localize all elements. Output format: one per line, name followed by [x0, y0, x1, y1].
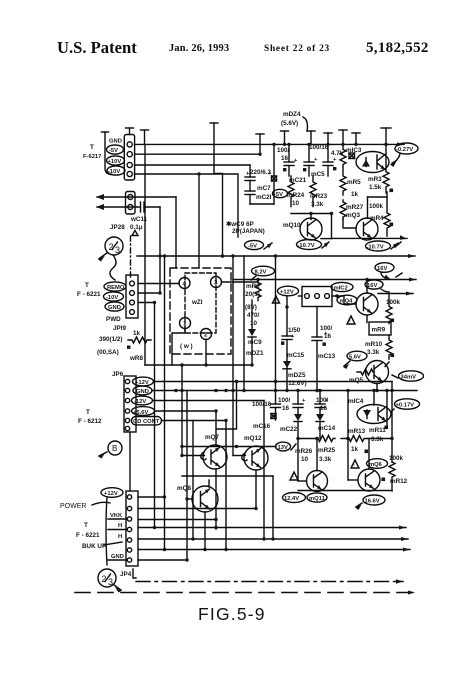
- svg-text:mQ12: mQ12: [244, 435, 262, 442]
- svg-text:10: 10: [292, 200, 300, 207]
- warning triangle mQ4: [347, 316, 355, 324]
- T-stub x311: [310, 131, 312, 144]
- HEADER: [57, 38, 429, 57]
- svg-text:5,182,552: 5,182,552: [366, 40, 429, 56]
- svg-text:-0.27V: -0.27V: [396, 147, 413, 153]
- svg-text:3.3k: 3.3k: [367, 349, 380, 356]
- oval +0.17V: [395, 399, 420, 409]
- vertical bus x187: [186, 391, 188, 561]
- svg-text:1: 1: [183, 321, 187, 328]
- leader lines power labels: [108, 518, 127, 520]
- labels 100/16 row: [252, 397, 364, 433]
- wire mIC4 feed: [373, 391, 375, 406]
- capacitor wC11: [137, 206, 141, 208]
- svg-text:GND: GND: [109, 139, 122, 145]
- svg-text:3: 3: [214, 280, 218, 287]
- svg-text:PWD: PWD: [106, 316, 121, 323]
- op-amp mIC4: [357, 405, 391, 424]
- wire emitter bus y490: [298, 490, 392, 492]
- svg-text:mR13: mR13: [348, 428, 366, 435]
- chain line bottom: [136, 581, 403, 583]
- svg-text:+: +: [302, 398, 306, 404]
- svg-text:H: H: [118, 523, 122, 529]
- svg-text:mC16: mC16: [253, 423, 271, 430]
- svg-text:-5V: -5V: [274, 192, 283, 198]
- svg-text:16V: 16V: [367, 283, 377, 289]
- wire pin1 down: [172, 329, 185, 366]
- pin 3: [211, 277, 222, 288]
- connector POWER labels: [60, 491, 124, 560]
- svg-text:+: +: [333, 157, 337, 163]
- svg-text:mR12: mR12: [390, 478, 408, 485]
- svg-text:T: T: [85, 282, 89, 289]
- svg-text:mR11: mR11: [369, 427, 386, 434]
- svg-text:mQ3: mQ3: [346, 212, 360, 219]
- wire pin2 down: [205, 340, 207, 366]
- svg-text:T: T: [90, 144, 94, 151]
- wire bus y293: [299, 295, 303, 297]
- svg-text:T: T: [86, 409, 90, 416]
- resistor mR11 3.3k: [369, 427, 386, 443]
- oval -10.7V left: [297, 240, 322, 250]
- svg-text:mR5: mR5: [347, 179, 361, 186]
- vertical mR13 column: [347, 391, 349, 481]
- wire H1: [138, 519, 216, 521]
- svg-text:B: B: [112, 444, 117, 453]
- svg-text:wZI: wZI: [191, 299, 203, 306]
- T-stub x260: [259, 134, 261, 154]
- T-stub x386: [385, 128, 387, 144]
- oval +12V power: [101, 488, 123, 498]
- connector JP6 ovals: [133, 377, 154, 386]
- diode mC14col: [316, 414, 324, 421]
- wire +12V pin feed: [138, 496, 165, 498]
- svg-text:10: 10: [301, 456, 309, 463]
- svg-text:100k: 100k: [386, 299, 401, 306]
- transistor mQ12: [244, 435, 262, 442]
- svg-text:(00,SA): (00,SA): [97, 349, 119, 356]
- node square A: [390, 189, 394, 193]
- svg-text:VKK: VKK: [110, 513, 123, 519]
- svg-text:mC15: mC15: [287, 352, 305, 359]
- vertical x199 to module: [198, 174, 200, 268]
- svg-text:2: 2: [102, 574, 107, 584]
- wire arrow JP2 pin1: [97, 196, 176, 198]
- bottom junction dots: [153, 254, 266, 551]
- svg-text:100/16: 100/16: [252, 401, 272, 408]
- node B: [108, 441, 122, 455]
- T-stub x328: [327, 133, 329, 144]
- svg-text:mIC4: mIC4: [348, 398, 364, 405]
- T-stub x144: [144, 130, 146, 144]
- outer dashed box w: [170, 268, 231, 354]
- svg-text:10: 10: [250, 320, 258, 327]
- svg-text:1k: 1k: [351, 191, 359, 198]
- svg-text:2P(JAPAN): 2P(JAPAN): [232, 228, 265, 235]
- connector JP28 body: [126, 192, 136, 215]
- pin 4: [179, 278, 190, 289]
- transistor mQ4: [356, 293, 378, 315]
- junction dots JP6: [174, 389, 177, 392]
- wire pin4 to connector: [138, 283, 179, 285]
- resistor 100k lower: [389, 455, 404, 462]
- T-stub x214 with step: [214, 123, 223, 257]
- wire bus y238: [332, 237, 408, 239]
- svg-text:BUK UP: BUK UP: [82, 543, 106, 550]
- connector POWER body: [106, 497, 107, 565]
- resistor mR5 1k: [340, 167, 346, 195]
- svg-text:mC22: mC22: [280, 426, 298, 433]
- svg-text:mC2I: mC2I: [256, 194, 272, 201]
- svg-text:mR23: mR23: [310, 193, 328, 200]
- svg-text:mQ4: mQ4: [340, 299, 354, 305]
- crossed square near mIC3: [349, 153, 355, 159]
- wire pin3 right: [222, 281, 259, 283]
- svg-text:3.3k: 3.3k: [311, 201, 324, 208]
- wire VKK: [138, 508, 256, 510]
- transistor mQ11: [307, 471, 328, 492]
- wire y476: [182, 475, 273, 477]
- wire top bus 3: [135, 164, 250, 166]
- T-stub x356: [355, 133, 357, 144]
- svg-text:mDZ4: mDZ4: [283, 111, 301, 118]
- svg-text:JP6: JP6: [112, 371, 124, 378]
- wire mQ7 emitter down: [215, 469, 217, 529]
- oval label mQ4: [337, 295, 357, 305]
- capacitor mC7 / mC2I stack: [249, 165, 251, 177]
- oval +12V mid: [278, 286, 299, 296]
- transistor mQ10: [283, 222, 301, 229]
- resistor box mR9: [369, 322, 391, 335]
- connector F-6221 body: [126, 275, 138, 318]
- svg-text:(5.6V): (5.6V): [281, 120, 298, 127]
- oval mQ6: [367, 459, 388, 469]
- vertical bus x264: [263, 401, 265, 540]
- svg-text:JP4: JP4: [120, 571, 132, 578]
- vertical bus x233 lower: [232, 391, 234, 456]
- svg-text:mQ10: mQ10: [283, 222, 301, 229]
- diode mDZ1 symbol: [251, 300, 253, 330]
- svg-text:mR3: mR3: [368, 176, 382, 183]
- svg-text:mDZ5: mDZ5: [288, 372, 306, 379]
- svg-text:100/: 100/: [277, 147, 290, 154]
- resistor mR6: [255, 280, 261, 301]
- transistor mQ6: [358, 469, 380, 491]
- vertical bus x226: [225, 421, 227, 550]
- label mDZ4: [281, 111, 301, 127]
- svg-text:8.2V: 8.2V: [255, 270, 267, 276]
- labels mC9 mDZ1 470/10: [245, 304, 264, 357]
- svg-text:mR26: mR26: [295, 448, 313, 455]
- svg-text:POWER: POWER: [60, 503, 86, 510]
- connector JP6 body: [124, 376, 136, 432]
- svg-text:mR10: mR10: [365, 341, 383, 348]
- svg-text:12.4V: 12.4V: [284, 496, 299, 502]
- capacitor mC22: [297, 391, 299, 404]
- vertical bus x176: [175, 197, 177, 268]
- svg-text:mC7: mC7: [257, 185, 271, 192]
- svg-text:0.1μ: 0.1μ: [130, 224, 143, 231]
- svg-text:13V: 13V: [278, 445, 288, 451]
- svg-text:✱wC9 6P: ✱wC9 6P: [226, 221, 254, 228]
- capacitor mC21: [288, 144, 290, 162]
- wire collector feed x236: [216, 382, 237, 430]
- oval mQ11: [307, 493, 327, 502]
- wire -12V right: [153, 400, 265, 402]
- resistor 1k lower: [351, 446, 359, 453]
- oval -5V: [245, 240, 264, 249]
- wire mQ12 emitter down: [255, 470, 257, 509]
- svg-text:2: 2: [109, 242, 114, 252]
- svg-text:GND: GND: [111, 554, 124, 560]
- transistor mQ3: [356, 218, 378, 240]
- wire arrow JP2 pin2: [97, 206, 137, 208]
- connector F-6217 body JP: [124, 135, 134, 181]
- vertical bus x275: [275, 256, 277, 391]
- oval label mIC2: [331, 282, 353, 291]
- svg-text:100k: 100k: [369, 203, 384, 210]
- figure caption FIG.5-9: [198, 604, 266, 624]
- vertical bus x196: [192, 421, 194, 540]
- arrow from -0.27V to mIC3: [392, 154, 400, 163]
- svg-text:5.6V: 5.6V: [349, 355, 361, 361]
- svg-text:+0.17V: +0.17V: [396, 403, 415, 409]
- IC mIC2 box: [302, 287, 332, 307]
- capacitor mC14: [319, 391, 321, 404]
- svg-text:1k: 1k: [351, 446, 359, 453]
- wire GND right: [152, 390, 417, 392]
- warning triangle mQ6: [351, 460, 359, 468]
- svg-text:FIG.5-9: FIG.5-9: [198, 604, 266, 624]
- svg-text:470/: 470/: [247, 312, 260, 319]
- oval 16.6V: [363, 495, 385, 505]
- pin 2: [201, 329, 212, 340]
- svg-text:3: 3: [115, 245, 120, 255]
- svg-text:JP28: JP28: [110, 224, 125, 231]
- svg-text:16V: 16V: [377, 266, 387, 272]
- label wC9: [226, 221, 265, 235]
- svg-text:H: H: [118, 534, 122, 540]
- wire bus y365: [145, 364, 252, 366]
- svg-text:16.6V: 16.6V: [365, 499, 380, 505]
- wire top bus 4: [135, 174, 238, 237]
- oval 16V upper: [375, 263, 394, 273]
- svg-text:34mV: 34mV: [401, 375, 417, 381]
- wire bus y256: [137, 255, 415, 257]
- label JP4: [120, 571, 132, 578]
- connector F-6221 ovals: [104, 282, 126, 291]
- svg-text:wR8: wR8: [129, 355, 143, 362]
- connector JP6 labels: [78, 371, 160, 425]
- svg-text:CD CONT: CD CONT: [133, 419, 160, 425]
- transistor mQ8: [177, 485, 191, 492]
- svg-text:F-6217: F-6217: [83, 154, 101, 160]
- wire GND jog: [138, 559, 187, 561]
- svg-text:1/50: 1/50: [288, 327, 301, 334]
- wire +5.6V right: [155, 410, 217, 412]
- svg-text:+12V: +12V: [280, 290, 294, 296]
- warning triangle mQ11: [290, 472, 298, 480]
- wire top bus 2: [135, 153, 260, 155]
- vertical bus x154: [154, 303, 156, 528]
- svg-text:2: 2: [204, 332, 208, 339]
- node 2/3 top: [105, 237, 123, 255]
- resistor mR12: [390, 478, 408, 485]
- svg-text:mQ11: mQ11: [309, 496, 326, 502]
- op-amp mIC3 (diode-transistor pair): [356, 152, 389, 173]
- svg-text:F - 6212: F - 6212: [78, 418, 102, 425]
- svg-text:mC13: mC13: [318, 353, 336, 360]
- resistor mR23 3.3k: [310, 176, 316, 207]
- wire mQ7 collector: [215, 411, 217, 445]
- node square B: [390, 223, 394, 227]
- wire down JP6 to POWER: [129, 432, 131, 491]
- svg-text:100k: 100k: [389, 455, 404, 462]
- transistor mQ5: [366, 361, 389, 384]
- oval 5.6V: [347, 351, 367, 361]
- svg-text:mQ7: mQ7: [205, 434, 219, 441]
- svg-text:4: 4: [183, 281, 187, 288]
- svg-text:mQ8: mQ8: [177, 485, 191, 492]
- capacitor mC13: [320, 325, 333, 340]
- svg-text:-10.7V: -10.7V: [298, 243, 315, 249]
- resistor 4.7k: [340, 144, 346, 166]
- connector F-6217 ovals: [105, 132, 112, 175]
- svg-text:mR25: mR25: [318, 447, 336, 454]
- oval 16V lower: [365, 280, 383, 289]
- svg-text:-10.7V: -10.7V: [367, 245, 384, 251]
- svg-text:mDZ1: mDZ1: [246, 350, 264, 357]
- wire long bus 2: [138, 538, 408, 540]
- svg-text:mIC2: mIC2: [334, 286, 348, 292]
- oval 34mV: [399, 371, 424, 381]
- wire CD CONT right: [162, 420, 227, 422]
- svg-text:3: 3: [108, 577, 113, 587]
- svg-text:3.3k: 3.3k: [371, 436, 384, 443]
- svg-text:U.S. Patent: U.S. Patent: [57, 38, 137, 57]
- svg-text:mR9: mR9: [372, 327, 386, 334]
- svg-text:mQ5: mQ5: [349, 377, 363, 384]
- resistor mR13: [348, 428, 366, 435]
- svg-text:mR27: mR27: [346, 204, 364, 211]
- svg-text:mR6: mR6: [246, 283, 260, 290]
- svg-text:F - 6221: F - 6221: [77, 291, 101, 298]
- wire bus y279: [233, 279, 416, 281]
- T-stub x344: [342, 130, 344, 144]
- diode mDZ mC22col: [294, 414, 302, 421]
- capacitor mC16: [275, 391, 277, 405]
- wire squiggle from 2/3: [110, 255, 116, 280]
- capacitor 1/50: [288, 327, 301, 340]
- wire +12V right: [154, 381, 393, 383]
- svg-text:T: T: [84, 522, 88, 529]
- wire node B to 13V: [182, 446, 276, 448]
- transistor mQ7: [205, 434, 219, 441]
- svg-text:390(1/2): 390(1/2): [99, 336, 122, 343]
- svg-text:+: +: [294, 158, 298, 164]
- resistor 100k right: [386, 299, 401, 306]
- resistor wR8 390: [97, 330, 143, 362]
- dashed line bottom: [75, 592, 415, 594]
- svg-text:(20(1): (20(1): [243, 291, 260, 298]
- resistor mR3 1.5k: [383, 145, 389, 193]
- oval 8.2V: [252, 266, 275, 276]
- top middle value labels: [250, 144, 362, 176]
- wire long bus 3: [138, 549, 410, 551]
- svg-text:-5V: -5V: [248, 244, 257, 250]
- svg-text:16: 16: [281, 155, 289, 162]
- vertical bus x244: [243, 256, 245, 391]
- svg-text:mC9: mC9: [248, 339, 262, 346]
- oval -5V small: [273, 189, 288, 197]
- svg-text:Jan. 26, 1993: Jan. 26, 1993: [169, 43, 229, 54]
- connector F-6221 labels: [77, 282, 126, 332]
- chain line JP28: [130, 236, 132, 278]
- svg-text:16: 16: [320, 405, 328, 412]
- node 2/3 bottom: [98, 569, 116, 587]
- resistor mR26: [295, 448, 313, 463]
- resistor mR27: [340, 200, 346, 219]
- capacitor mC5: [308, 144, 310, 162]
- resistor mR10 3.3k: [365, 341, 383, 356]
- resistor mR24: [288, 176, 294, 207]
- svg-text:F - 6221: F - 6221: [76, 532, 100, 539]
- wire top bus 1: [135, 143, 404, 145]
- oval -10.7V right: [366, 241, 391, 251]
- vertical bus x233: [232, 256, 234, 391]
- resistor mR4 100k: [368, 196, 388, 198]
- svg-text:100/16: 100/16: [309, 144, 329, 151]
- warning triangle mid: [273, 296, 280, 303]
- pin 1: [180, 318, 191, 329]
- svg-text:mR24: mR24: [287, 192, 305, 199]
- inner dashed box wZI: [185, 273, 216, 333]
- capacitor x328: [327, 144, 329, 162]
- resistor mR25 3.3k: [318, 447, 336, 463]
- svg-text:(8V): (8V): [245, 304, 257, 311]
- wire pin H2 long bus 1: [138, 527, 406, 529]
- T-stub x280: [284, 131, 286, 144]
- svg-text:mQ6: mQ6: [369, 462, 383, 468]
- svg-text:Sheet 22 of 23: Sheet 22 of 23: [264, 44, 330, 54]
- svg-text:16: 16: [282, 405, 290, 412]
- vertical bus x164: [164, 256, 166, 550]
- oval -0.27V: [395, 143, 418, 154]
- vertical bus x145: [144, 144, 146, 365]
- svg-text:JPI9: JPI9: [113, 325, 126, 332]
- diode mDZ5: [283, 361, 291, 368]
- svg-text:3.3k: 3.3k: [319, 456, 332, 463]
- svg-text:( w ): ( w ): [180, 343, 193, 350]
- oval 13V: [276, 442, 291, 451]
- svg-text:1.5k: 1.5k: [369, 184, 382, 191]
- svg-text:+: +: [314, 157, 318, 163]
- svg-text:+: +: [325, 398, 329, 404]
- svg-text:100/: 100/: [278, 397, 291, 404]
- oval 12.4V: [283, 493, 306, 503]
- connector F-6217 labels: [83, 139, 122, 176]
